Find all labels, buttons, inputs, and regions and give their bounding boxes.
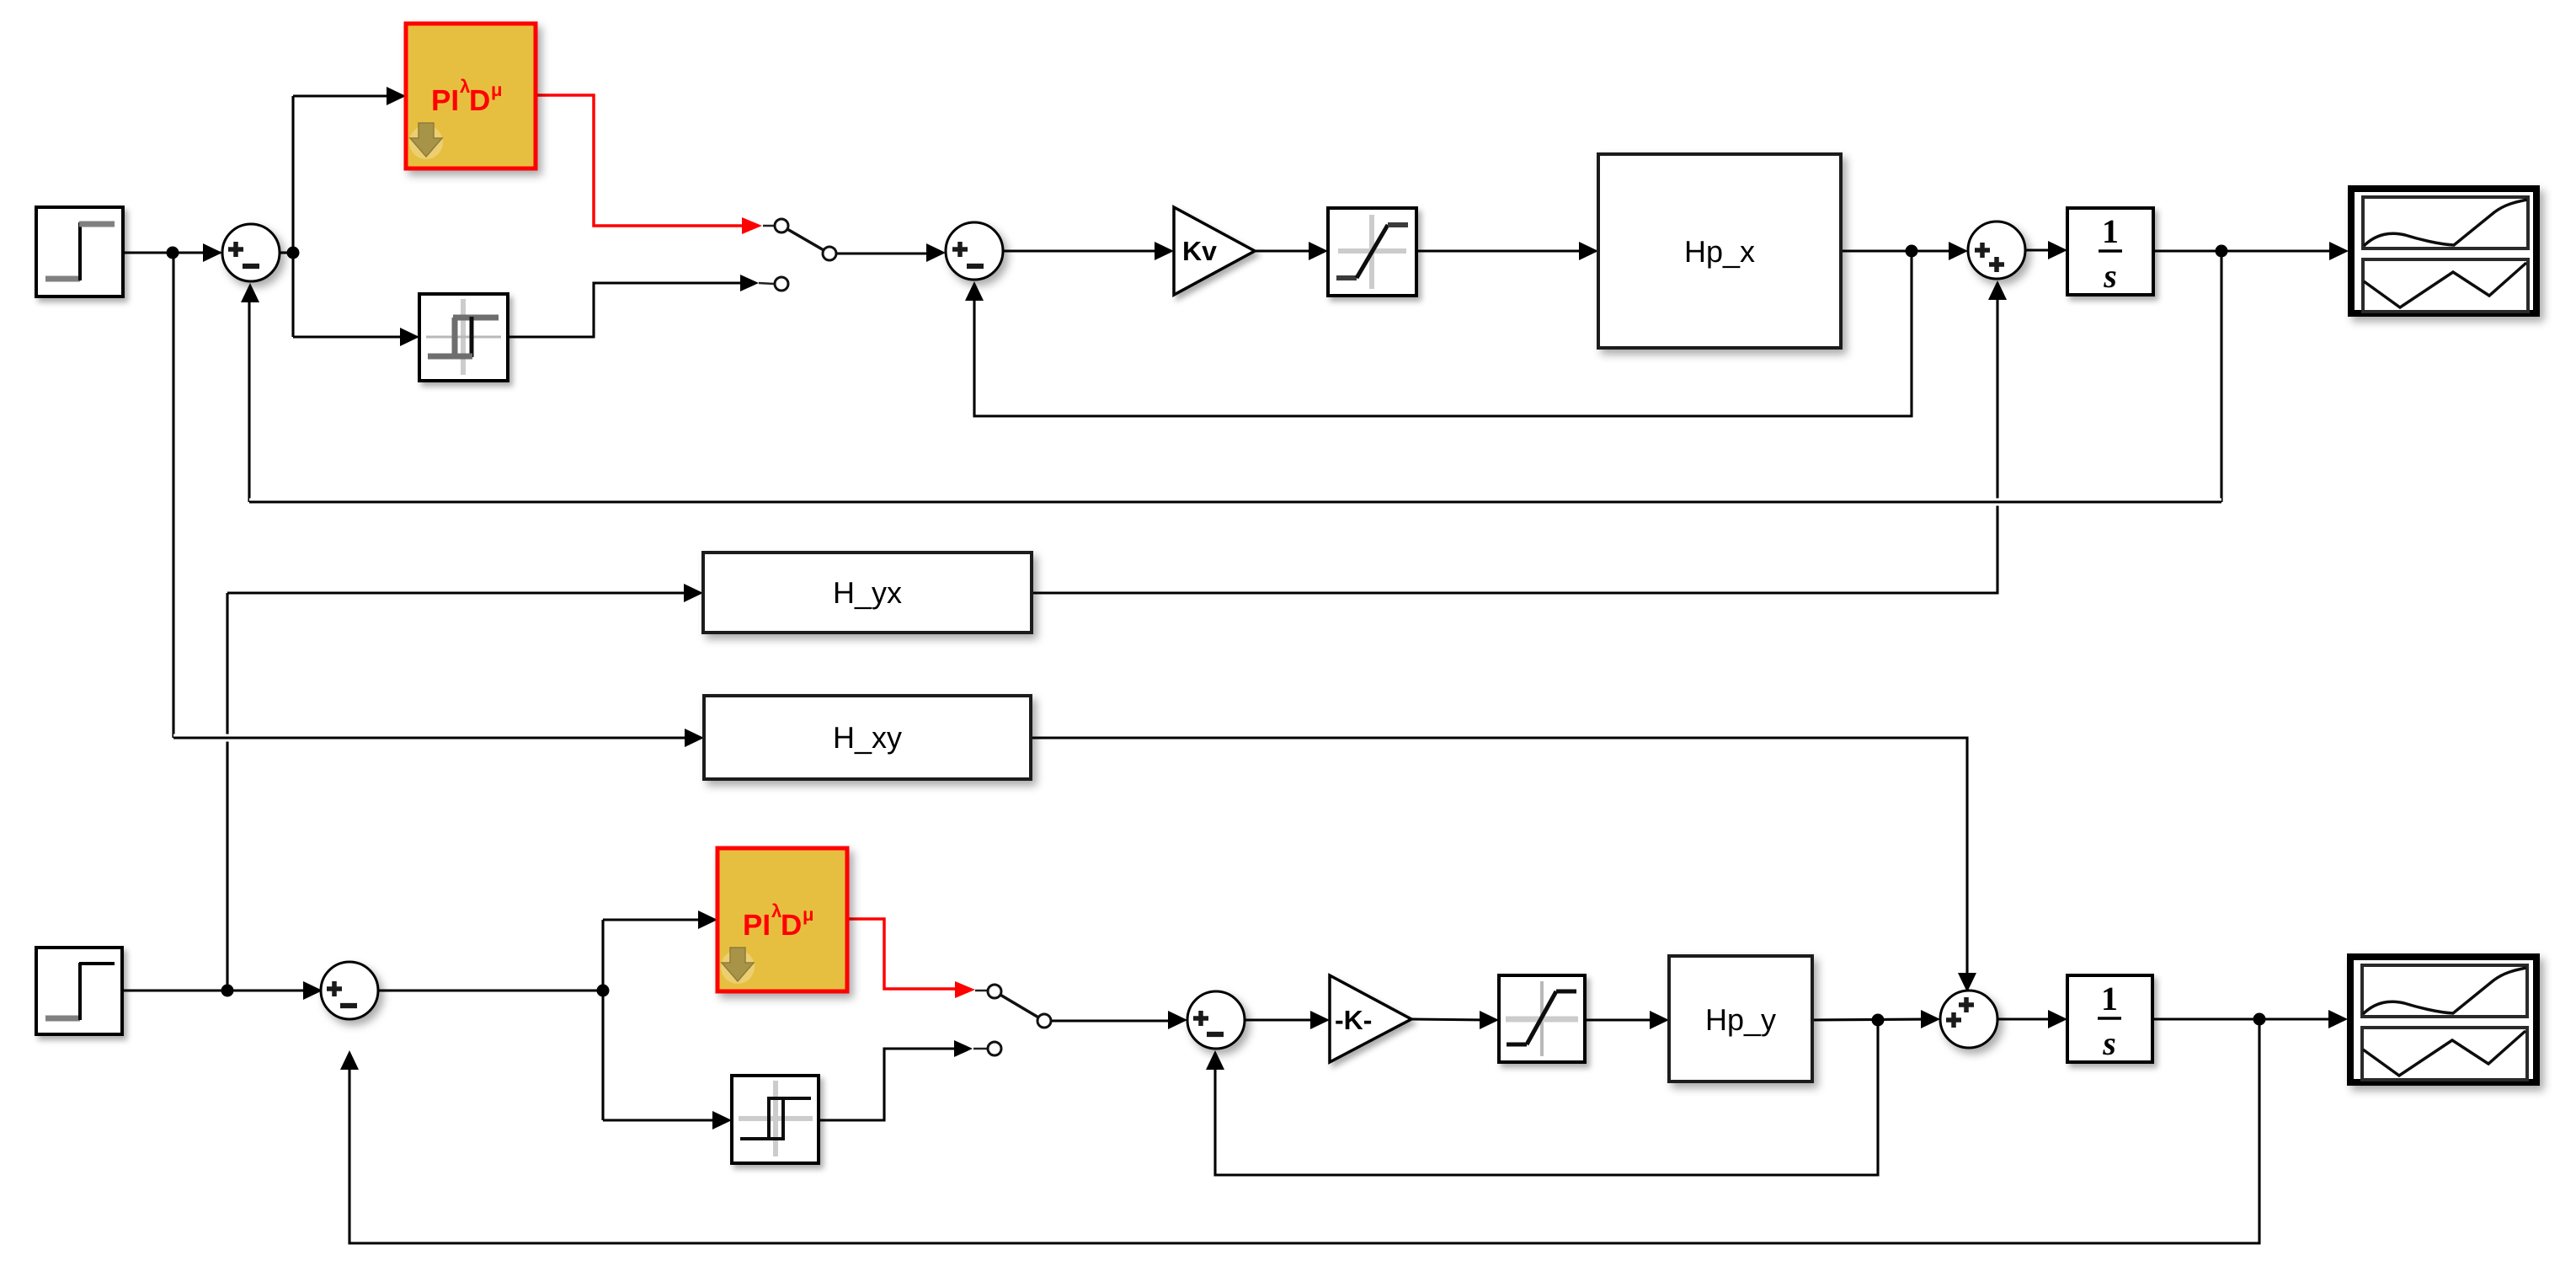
- svg-text:H_xy: H_xy: [833, 720, 902, 755]
- svg-text:D: D: [469, 84, 490, 117]
- coupling block H_xy: [704, 696, 1031, 779]
- wire (red): PID_y output to switch2 upper contact: [847, 919, 957, 989]
- arrowhead into Hp_y: [1650, 1011, 1669, 1029]
- wire: Sum4 output to branch point: [378, 989, 603, 991]
- wire: Saturation_y output to Hp_y: [1585, 1018, 1657, 1021]
- wire: branch from Step_y line up to H_yx input: [226, 593, 228, 991]
- scope block Scope_x: [2351, 189, 2536, 313]
- arrowhead into Hp_x: [1579, 242, 1598, 260]
- scope block Scope_y: [2350, 957, 2536, 1082]
- arrowhead into Relay_y: [712, 1111, 732, 1129]
- svg-text:μ: μ: [803, 904, 813, 925]
- arrowhead into Sum2: [926, 243, 946, 262]
- wire: Relay_y output to switch2 lower contact: [819, 1049, 957, 1120]
- sum block Sum2 (+ -): [946, 222, 1003, 280]
- arrowhead into Scope_y: [2328, 1010, 2348, 1028]
- wire: Sum6 output to Integrator_y: [1997, 1017, 2056, 1020]
- wire: stub into switch1 upper contact: [763, 225, 774, 227]
- arrowhead up into Sum1 minus: [241, 283, 259, 302]
- wire (red): PID_x output to switch1 upper contact: [536, 95, 744, 226]
- svg-text:1: 1: [2101, 980, 2118, 1017]
- wire: Hp_y output to Sum6: [1812, 1019, 1928, 1020]
- junction: Hp_x output branch: [1906, 245, 1918, 258]
- library-link arrow badge on PID_y: [721, 948, 755, 984]
- arrowhead (red) to switch2 upper contact: [955, 981, 975, 998]
- wire: branch vertical to PID_x and Relay_x: [291, 96, 294, 337]
- arrowhead into Kv: [1155, 242, 1174, 260]
- arrowhead up into Sum2 minus: [965, 281, 984, 301]
- arrowhead into H_xy: [685, 729, 704, 747]
- plant block Hp_y: [1669, 956, 1812, 1081]
- arrowhead into Sum5: [1168, 1011, 1187, 1029]
- junction: Step_x output branch: [167, 247, 179, 259]
- wire: H_yx output to Sum3 bottom input: [1032, 294, 1997, 593]
- arrowhead into Integrator_x: [2048, 241, 2067, 259]
- junction: Integrator_x output branch: [2216, 245, 2228, 258]
- arrowhead into Scope_x: [2329, 242, 2349, 260]
- arrowhead into Sum3: [1949, 242, 1968, 260]
- manual switch Switch_y (lever + contacts): [995, 991, 1044, 1021]
- sum block Sum6 (+ +): [1940, 991, 1997, 1048]
- wire: Sum5 output to gain -K-: [1245, 1018, 1318, 1021]
- wire: branch vertical to PID_y and Relay_y: [601, 920, 604, 1120]
- wire: stub into switch1 lower contact: [759, 283, 774, 284]
- arrowhead up into Sum4 minus: [340, 1050, 359, 1070]
- wire: Saturation_x output to Hp_x: [1416, 249, 1587, 252]
- gain block Kv (triangle): [1174, 207, 1255, 295]
- arrowhead into PID_x: [387, 87, 406, 105]
- svg-text:s: s: [2103, 257, 2117, 295]
- FOPID controller block PID_x (PI^lambda D^mu), orange with red border: [406, 24, 536, 168]
- svg-text:Kv: Kv: [1182, 236, 1217, 266]
- step source Step_x: [36, 207, 123, 296]
- saturation block Saturation_y: [1499, 975, 1585, 1062]
- wire: inner feedback y (Hp_y output down to Sum5 minus input): [1215, 1020, 1878, 1175]
- svg-text:D: D: [781, 909, 802, 942]
- arrowhead into Sum1: [203, 243, 222, 262]
- arrowhead into gain -K-: [1310, 1011, 1330, 1029]
- junction: Hp_y output branch: [1872, 1014, 1885, 1027]
- arrowhead up into Sum5 minus: [1206, 1050, 1224, 1070]
- wire: Sum3 output to Integrator_x: [2025, 248, 2056, 251]
- svg-text:s: s: [2102, 1024, 2116, 1062]
- wire: -K- output to Saturation_y: [1411, 1019, 1487, 1020]
- svg-text:H_yx: H_yx: [833, 575, 902, 610]
- wire: stub into switch2 lower contact: [973, 1048, 987, 1050]
- arrowhead into Relay_x: [400, 328, 419, 346]
- manual switch Switch_x (lever + contacts): [781, 226, 829, 254]
- wire: into H_yx: [227, 591, 691, 594]
- wire: into H_xy (horizontal from step_x branch): [173, 734, 692, 742]
- sum block Sum3 (+ +): [1968, 222, 2025, 279]
- plant block Hp_x: [1598, 154, 1841, 348]
- step source Step_y: [36, 948, 122, 1034]
- wire: outer feedback y back to Sum4 minus input: [349, 1019, 2259, 1243]
- coupling block H_yx: [703, 553, 1032, 633]
- wire: outer feedback x horizontal run: [249, 499, 2221, 506]
- junction: Step_y output branch: [221, 985, 234, 997]
- junction: Sum4 output branch: [597, 985, 610, 997]
- relay block Relay_y (hysteresis icon): [732, 1076, 819, 1163]
- arrowhead down into Sum6 top: [1958, 973, 1976, 992]
- svg-text:PI: PI: [431, 84, 459, 117]
- wire: stub into switch2 upper contact: [975, 990, 987, 992]
- arrowhead (red) to switch1 upper contact: [742, 217, 762, 234]
- wire: Relay_x output to switch lower contact: [508, 283, 744, 337]
- arrowhead into PID_y: [698, 911, 717, 929]
- wire: outer feedback x up into Sum1 minus input: [248, 296, 250, 502]
- saturation block Saturation_x: [1328, 208, 1416, 296]
- wire: Sum1 output to branch point: [280, 251, 293, 254]
- FOPID controller block PID_y (PI^lambda D^mu), orange with red border: [717, 848, 847, 991]
- sum block Sum5 (+ -): [1187, 991, 1245, 1049]
- arrowhead into Saturation_x: [1309, 242, 1328, 260]
- relay block Relay_x (hysteresis icon): [419, 294, 508, 381]
- wire: switch1 output to Sum2: [836, 252, 934, 254]
- wire: Step_x output to Sum1: [123, 251, 221, 254]
- svg-text:1: 1: [2102, 212, 2119, 250]
- arrowhead into Saturation_y: [1480, 1011, 1499, 1029]
- arrowhead into Sum4: [303, 981, 323, 1000]
- integrator block Integrator_x (1/s): [2067, 208, 2153, 295]
- wire: Integrator_y output to Scope_y: [2152, 1017, 2336, 1020]
- gain block -K- (triangle): [1330, 975, 1411, 1062]
- wire: inner feedback x (Hp_x output down to Sum2 minus input): [974, 251, 1912, 416]
- wire: Step_y output to Sum4: [122, 989, 309, 991]
- wire: switch2 output to Sum5: [1051, 1019, 1176, 1022]
- wire: into Relay_y: [603, 1119, 720, 1121]
- library-link arrow badge on PID_x: [409, 123, 443, 159]
- svg-text:PI: PI: [743, 909, 771, 942]
- wire: branch from Step_x line down to H_xy input (vertical): [172, 253, 174, 738]
- svg-text:-K-: -K-: [1335, 1005, 1372, 1035]
- junction: Integrator_y output branch: [2253, 1013, 2266, 1026]
- wire: into Relay_x: [293, 335, 408, 338]
- arrowhead into Sum6: [1921, 1010, 1940, 1028]
- arrowhead to switch1 lower contact: [740, 275, 759, 291]
- arrowhead to switch2 lower contact: [954, 1040, 973, 1057]
- junction: Sum1 output branch: [287, 247, 300, 259]
- wire: Kv output to Saturation_x: [1255, 249, 1316, 252]
- wire: into PID_y: [603, 918, 706, 921]
- arrowhead into H_yx: [684, 584, 703, 602]
- wire: H_xy output down to Sum6 top input: [1031, 738, 1967, 979]
- arrowhead up into Sum3 plus bottom: [1988, 280, 2007, 300]
- wire: into PID_x: [293, 94, 394, 97]
- arrowhead into Integrator_y: [2048, 1010, 2067, 1028]
- wire: Sum2 output to gain Kv: [1003, 249, 1162, 252]
- wire: Integrator_x output to Scope_x: [2153, 249, 2337, 252]
- sum block Sum1 (+ -): [222, 224, 280, 281]
- integrator block Integrator_y (1/s): [2067, 975, 2152, 1062]
- svg-text:μ: μ: [491, 79, 502, 100]
- wire: outer feedback x vertical from integrator junction: [2220, 251, 2222, 502]
- svg-text:Hp_x: Hp_x: [1684, 234, 1755, 269]
- svg-text:Hp_y: Hp_y: [1705, 1002, 1776, 1037]
- sum block Sum4 (+ -): [321, 962, 378, 1019]
- wire: Hp_x output to Sum3: [1841, 249, 1956, 252]
